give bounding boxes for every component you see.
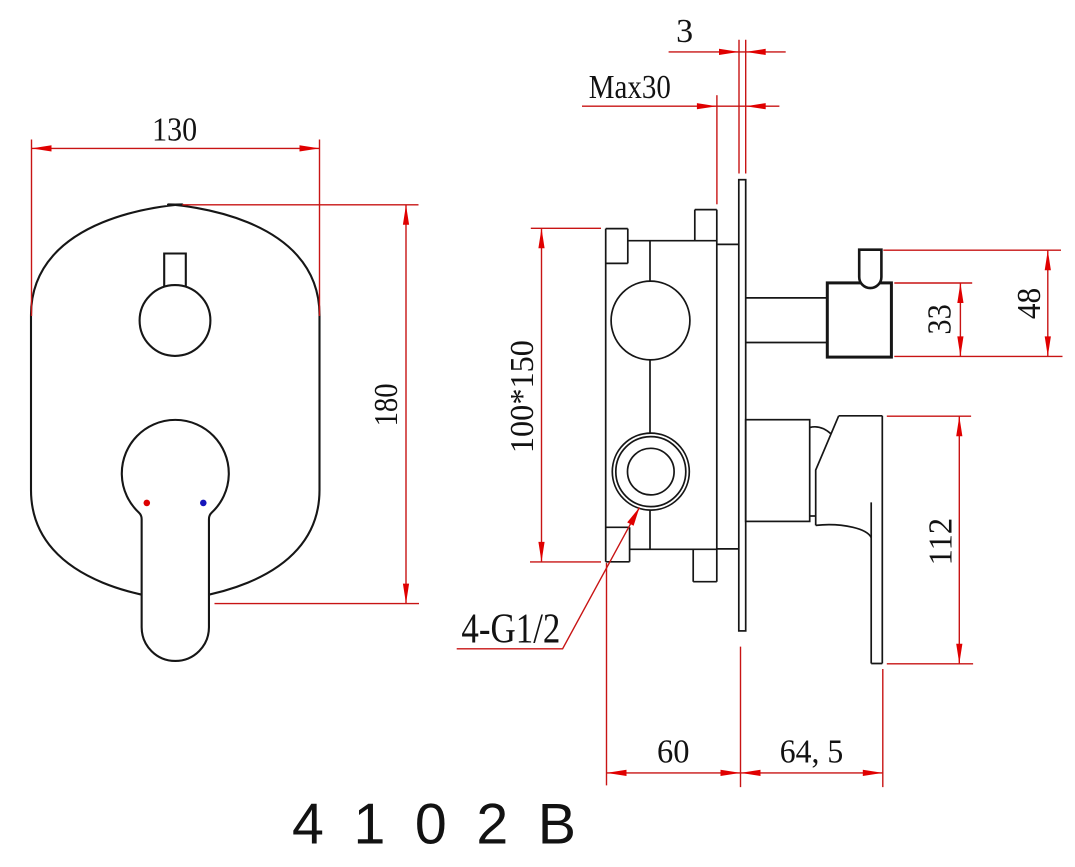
svg-text:64, 5: 64, 5 (780, 734, 844, 771)
svg-text:48: 48 (1011, 288, 1048, 319)
svg-text:33: 33 (922, 304, 959, 335)
svg-text:60: 60 (657, 734, 690, 771)
svg-text:4-G1/2: 4-G1/2 (461, 606, 560, 652)
svg-text:3: 3 (676, 13, 693, 50)
svg-text:112: 112 (922, 518, 959, 566)
svg-text:130: 130 (152, 112, 197, 149)
svg-text:180: 180 (368, 383, 405, 426)
svg-text:100*150: 100*150 (504, 340, 541, 453)
svg-text:Max30: Max30 (589, 69, 671, 106)
